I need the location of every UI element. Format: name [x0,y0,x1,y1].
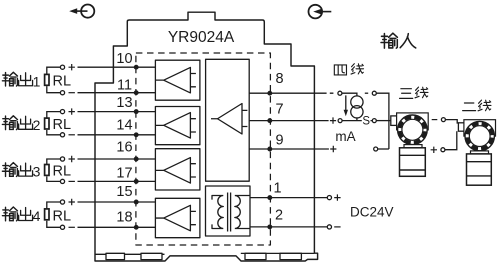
svg-text:14: 14 [116,117,132,133]
svg-text:16: 16 [116,139,132,155]
label 三线 [400,87,428,98]
svg-text:8: 8 [275,71,283,87]
output3 load circuit [45,156,156,184]
svg-text:RL: RL [53,117,72,133]
wire row 7 (input +) [249,117,391,123]
junction dot row 10 [134,65,138,69]
plus sign [69,64,75,70]
junction dot row 16 [134,157,138,161]
wire - row 14 [47,130,156,135]
terminal circle - [60,91,64,95]
wire + row 15 [47,202,156,208]
plus sign [69,199,75,205]
svg-text:DC24V: DC24V [350,204,394,219]
neck [471,151,489,154]
junction dot row 15 [134,200,138,204]
svg-text:2: 2 [275,208,283,224]
resistor RL4 [45,209,49,220]
wire row 9 (input + alt) [249,146,389,152]
svg-text:mA: mA [335,129,355,144]
label 输入 (input) [400,34,416,48]
isolation amp U3 box [155,149,200,190]
svg-text:18: 18 [116,210,132,226]
junction dot row 18 [134,226,138,230]
svg-text:RL: RL [53,163,72,179]
input direction symbol (top-right circled arrow) [309,5,332,19]
svg-text:2: 2 [33,117,41,133]
transformer secondary winding [235,196,250,229]
foot 3 [245,253,266,259]
power transformer T1 box [206,186,251,236]
resistor RL3 [45,165,49,176]
enclosure outline (DIN module profile) [95,12,318,261]
two-wire connection stubs [431,118,459,153]
wire - row 18 [47,221,156,228]
svg-text:1: 1 [33,73,41,89]
wire row 1 (DC24V +) [250,194,341,200]
wire - row 11 [47,86,156,93]
terminal circle + [60,200,64,204]
terminal circle + [60,65,64,69]
isolation amp U2 box [155,107,200,145]
terminal block [391,116,398,126]
plus sign [69,156,75,162]
enclosure underside lines [95,252,314,255]
label 输出4 [2,207,40,224]
current source (mA loop) [344,95,363,120]
input amplifier U5 box [206,59,250,181]
minus sign [69,134,75,136]
inner dashed isolation border [136,53,271,245]
plus sign [69,108,75,114]
terminal circle + [60,157,64,161]
junction dot row 14 [134,133,138,137]
terminal circle - [60,133,64,137]
terminal circle - [60,225,64,229]
minus sign [69,180,75,182]
terminal circle - [60,179,64,183]
label 二线 [463,100,491,111]
head ring [398,115,428,145]
foot 4 [280,253,301,259]
wire + row 10 [47,67,156,74]
neck [404,145,422,148]
transformer primary winding [212,196,223,229]
head ring [465,121,494,150]
terminal circle + [60,110,64,114]
foot 2 [141,253,162,259]
label 输出2 [2,116,40,133]
svg-text:7: 7 [275,101,283,117]
wire + row 13 [47,112,156,118]
three-wire transmitter [391,113,428,176]
svg-text:RL: RL [53,208,72,224]
output direction symbol (top-left circled arrow) [69,5,94,18]
foot 1 [106,253,125,259]
junction dot row 11 [134,91,138,95]
svg-text:9: 9 [275,132,283,148]
wire - row 17 [47,176,156,181]
isolation amp U4 box [155,198,200,237]
isolation amp U1 box [155,60,200,100]
resistor RL1 [45,74,49,85]
resistor RL2 [45,118,49,129]
label 输出3 [2,163,40,180]
finned body [467,154,492,185]
junction dot row 13 [134,110,138,114]
output1 load circuit [45,64,156,95]
label 输出1 [2,72,40,89]
output2 load circuit [45,108,156,136]
output4 load circuit [45,199,156,230]
svg-text:15: 15 [116,184,132,200]
junction dot row 17 [134,180,138,184]
svg-text:13: 13 [116,95,132,111]
wire row 8 (input -) [249,91,389,149]
current arrow [345,95,347,110]
svg-text:RL: RL [53,73,72,89]
svg-text:3: 3 [33,164,41,180]
svg-text:11: 11 [117,77,132,93]
svg-text:17: 17 [116,165,132,181]
minus sign [69,226,75,228]
svg-text:4: 4 [33,208,41,224]
two-wire transmitter [458,120,495,186]
svg-text:1: 1 [273,180,281,196]
svg-text:YR9024A: YR9024A [168,29,235,46]
svg-text:S: S [362,115,370,127]
svg-text:10: 10 [116,51,132,67]
wire row 2 (DC24V -) [250,225,341,229]
mounting plate [464,120,496,136]
terminal block [458,123,465,131]
minus sign [69,92,75,94]
mounting plate [397,113,429,130]
wire + row 16 [47,159,156,164]
finned body [400,148,426,177]
label 四线 [334,64,363,75]
transformer core [228,193,231,232]
